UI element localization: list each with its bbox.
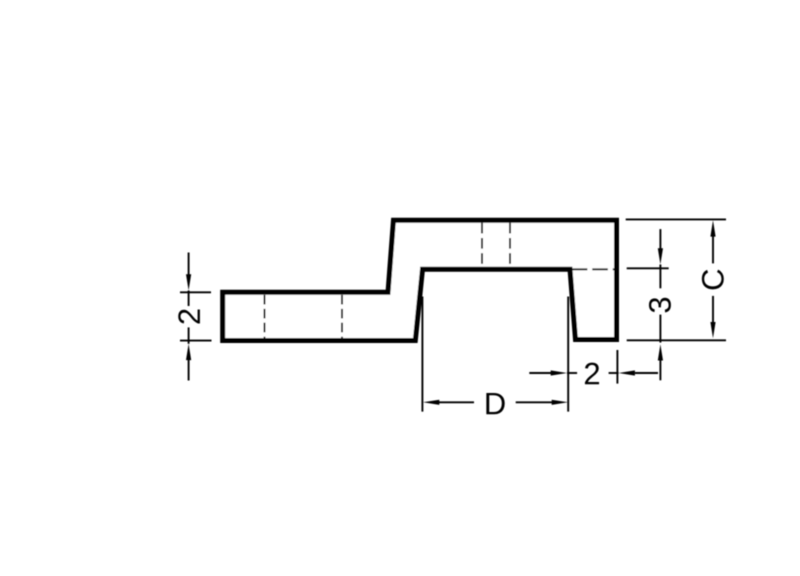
dimension 2 left: dim line lower segment [188, 327, 190, 343]
hidden dashed line right-block horizontal [572, 268, 615, 270]
dimension 3: upper arrowhead (down) [658, 248, 663, 264]
section dashed line top-block B [509, 223, 511, 267]
dimension 3: dim line lower segment [659, 315, 661, 343]
dimension D: label D [486, 393, 504, 414]
section dashed line top-block A [481, 223, 483, 267]
dimension 2 left: lower leader tail [188, 360, 190, 381]
part profile outline [223, 220, 617, 340]
dimension D: dim line right segment [516, 401, 552, 403]
dimension 2 right: left arrowhead (right) [551, 370, 567, 375]
dimension 2 right: left leader tail [529, 372, 551, 374]
dimension 3: upper leader tail [659, 229, 661, 249]
dimension 2 left: dim line upper segment [188, 291, 190, 307]
dimension 2 right: right leader tail [635, 372, 658, 374]
dimension 2 left: lower arrowhead (up) [186, 344, 191, 360]
dimension 3: lower leader tail [659, 360, 661, 380]
dimension C: dim line lower segment [712, 296, 714, 322]
dimension 2 left: extension line bottom [180, 340, 212, 342]
dimension 2 left: upper leader tail [188, 253, 190, 276]
section dashed line left-bar A [264, 295, 266, 340]
dimension C: extension line top [626, 218, 726, 220]
dimension D: extension line left [421, 297, 423, 412]
dimension 2 right: label 2 [585, 363, 599, 385]
dimension D: right arrowhead (right) [552, 400, 568, 405]
dimension 3: extension line middle [627, 267, 669, 269]
dimension 3: lower arrowhead (up) [658, 344, 663, 360]
dimension C: dim line upper segment [712, 236, 714, 263]
dimension 2 left: label 2 [178, 309, 200, 323]
dimension D: left arrowhead (left) [423, 400, 439, 405]
dimension 3: dim line upper segment [659, 265, 661, 289]
dimension C: label C [702, 270, 724, 290]
dimension D: dim line left segment [439, 401, 474, 403]
dimension C: upper arrowhead (up) [710, 220, 715, 236]
dimension 2 right: right arrowhead (left) [619, 370, 635, 375]
dimension C: extension line bottom [627, 339, 726, 341]
dimension C: lower arrowhead (down) [710, 322, 715, 338]
dimension 2 left: upper arrowhead (down) [186, 274, 191, 290]
dimension D: extension line right [567, 297, 569, 412]
dimension 2 right: stub left of arrow [609, 372, 619, 374]
dimension 2 right: extension line [616, 350, 618, 384]
dimension 2 right: stub through extension [567, 372, 577, 374]
dimension 2 left: extension line top [180, 291, 211, 293]
dimension 3: label 3 [649, 298, 671, 313]
section dashed line left-bar B [341, 295, 343, 340]
